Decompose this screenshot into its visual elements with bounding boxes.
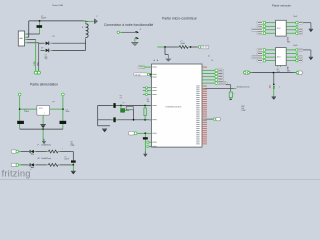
svg-text:100uF: 100uF xyxy=(24,111,29,113)
svg-text:4.7k: 4.7k xyxy=(277,71,280,73)
svg-text:10uH: 10uH xyxy=(181,43,186,45)
svg-text:™: ™ xyxy=(29,169,31,172)
svg-text:Partie alimentation: Partie alimentation xyxy=(30,82,58,86)
svg-text:3.3v alim: 3.3v alim xyxy=(135,74,142,76)
svg-text:100nF: 100nF xyxy=(41,18,47,20)
svg-text:Rst2: Rst2 xyxy=(294,15,298,18)
svg-text:7.2: 7.2 xyxy=(120,97,122,99)
svg-text:1/4W: 1/4W xyxy=(241,110,245,112)
svg-text:Red(633nm): Red(633nm) xyxy=(42,145,52,147)
svg-text:P: P xyxy=(97,16,98,18)
svg-text:Partie micro-contrôleur: Partie micro-contrôleur xyxy=(162,17,198,21)
svg-text:?: ? xyxy=(234,94,235,96)
svg-text:R?: R? xyxy=(71,142,73,144)
svg-text:Partie mémoire: Partie mémoire xyxy=(272,3,291,7)
svg-text:J2: J2 xyxy=(208,56,210,58)
svg-text:C?: C? xyxy=(64,157,66,159)
svg-text:Partie USB: Partie USB xyxy=(52,4,63,7)
svg-text:T: T xyxy=(279,87,280,89)
svg-text:10uF: 10uF xyxy=(66,111,70,113)
svg-text:D?: D? xyxy=(53,36,55,38)
svg-text:78?5: 78?5 xyxy=(39,108,43,110)
svg-text:3.3v alim: 3.3v alim xyxy=(202,47,209,49)
svg-text:10k: 10k xyxy=(147,101,150,103)
svg-text:Rst3: Rst3 xyxy=(294,44,298,47)
svg-text:15: 15 xyxy=(211,60,213,62)
svg-text:L4?: L4? xyxy=(37,158,40,160)
svg-text:J?: J? xyxy=(140,29,142,31)
svg-text:T?: T? xyxy=(123,102,125,104)
svg-text:100nF: 100nF xyxy=(64,158,69,160)
svg-text:fritzing: fritzing xyxy=(2,168,31,178)
svg-text:Red(633nm): Red(633nm) xyxy=(42,158,52,160)
svg-text:P?: P? xyxy=(53,102,55,104)
svg-text:+: + xyxy=(62,148,63,150)
svg-text:47k: 47k xyxy=(71,143,74,145)
svg-text:D?: D? xyxy=(41,48,43,50)
svg-text:22p: 22p xyxy=(45,58,48,60)
svg-text:1/4W: 1/4W xyxy=(71,145,75,147)
svg-text:Connecteur à notre fonctionnal: Connecteur à notre fonctionnalité xyxy=(104,23,153,27)
svg-text:STM32F103C8T6: STM32F103C8T6 xyxy=(166,107,183,109)
svg-text:L?: L? xyxy=(37,145,39,147)
